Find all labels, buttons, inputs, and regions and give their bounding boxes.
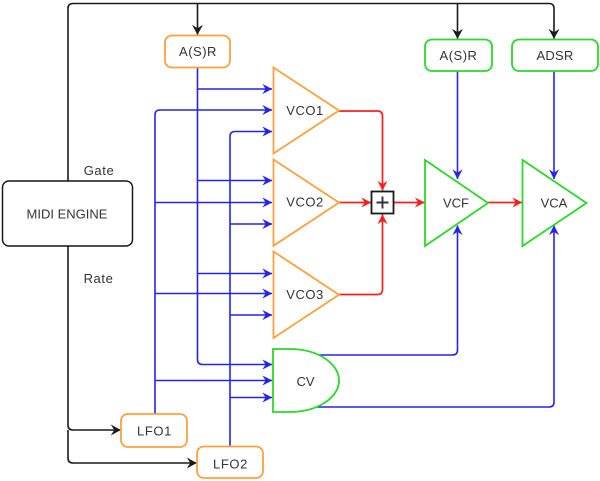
wire A(S)R branch to VCO1 — [198, 88, 273, 90]
wire VCO2 to summer — [339, 202, 371, 204]
block VCO2 — [274, 160, 340, 246]
svg-text:Rate: Rate — [84, 271, 114, 286]
wire LFO1 branch to CV — [155, 380, 272, 382]
wire A(S)R branch to VCO3 — [198, 273, 273, 275]
block CV — [273, 349, 339, 412]
block A(S)R pitch envelope — [165, 36, 230, 68]
block LFO2 — [197, 447, 263, 479]
wire ADSR to VCA — [553, 71, 555, 179]
wire gate trunk from MIDI ENGINE top along page top — [68, 4, 554, 182]
wire VCO3 to summer — [339, 215, 383, 295]
wire VCF to VCA — [488, 202, 522, 204]
svg-text:VCA: VCA — [541, 196, 568, 211]
wire gate drop to A(S)R envelope — [197, 4, 199, 35]
wire rate to LFO1 — [68, 246, 121, 430]
block VCA — [523, 160, 587, 246]
wire CV to VCF bottom — [317, 226, 458, 356]
block MIDI ENGINE — [3, 181, 133, 246]
wire VCO1 to summer — [339, 111, 383, 191]
svg-text:CV: CV — [296, 374, 314, 389]
block VCO3 — [274, 252, 340, 339]
svg-text:LFO1: LFO1 — [137, 424, 172, 439]
block ADSR — [512, 40, 598, 72]
svg-text:VCO1: VCO1 — [286, 103, 323, 118]
svg-text:ADSR: ADSR — [537, 48, 574, 63]
wire LFO1 branch to VCO3 — [155, 293, 272, 295]
wire A(S)R bus down to CV — [198, 68, 273, 365]
wire CV to VCA bottom — [317, 226, 554, 408]
wire A(S)R filter envelope to VCF — [457, 71, 459, 179]
wire LFO2 branch to CV — [230, 397, 272, 399]
svg-text:VCF: VCF — [443, 196, 469, 211]
svg-text:LFO2: LFO2 — [213, 457, 248, 472]
wire LFO1 bus up to VCO1 — [155, 110, 272, 414]
svg-text:VCO2: VCO2 — [286, 195, 323, 210]
block VCF — [425, 160, 488, 246]
wire A(S)R branch to VCO2 — [198, 180, 273, 182]
wire LFO2 branch to VCO3 — [230, 314, 272, 316]
wire LFO2 branch to VCO2 — [230, 223, 272, 225]
svg-text:Gate: Gate — [84, 163, 115, 178]
wire LFO1 branch to VCO2 — [155, 202, 272, 204]
wire summer to VCF — [394, 202, 425, 204]
svg-text:A(S)R: A(S)R — [179, 44, 217, 59]
summer + — [372, 192, 394, 214]
wire LFO2 bus up to VCO1 — [230, 132, 272, 447]
svg-text:A(S)R: A(S)R — [440, 48, 478, 63]
block A(S)R filter envelope — [425, 40, 492, 72]
block LFO1 — [121, 414, 187, 447]
wire gate drop to A(S)R filter envelope — [457, 4, 459, 39]
svg-text:MIDI ENGINE: MIDI ENGINE — [27, 207, 108, 222]
wire rate to LFO2 — [68, 430, 197, 463]
block VCO1 — [274, 68, 340, 154]
svg-text:VCO3: VCO3 — [286, 287, 323, 302]
